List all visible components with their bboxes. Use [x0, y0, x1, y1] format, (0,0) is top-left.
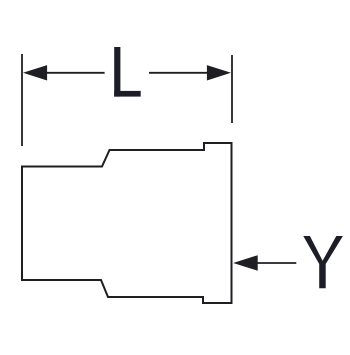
label L: [114, 47, 141, 97]
leader line Y: [256, 262, 296, 264]
dimension line L right segment: [149, 72, 214, 74]
fitting body outline: [22, 143, 232, 303]
arrowhead right of dimension L: [207, 65, 231, 80]
dimension line L left segment: [40, 72, 105, 74]
extension line left: [21, 54, 23, 146]
arrowhead of leader Y: [233, 255, 258, 271]
arrowhead left of dimension L: [23, 65, 47, 80]
label Y: [303, 236, 343, 288]
extension line right: [231, 55, 233, 123]
